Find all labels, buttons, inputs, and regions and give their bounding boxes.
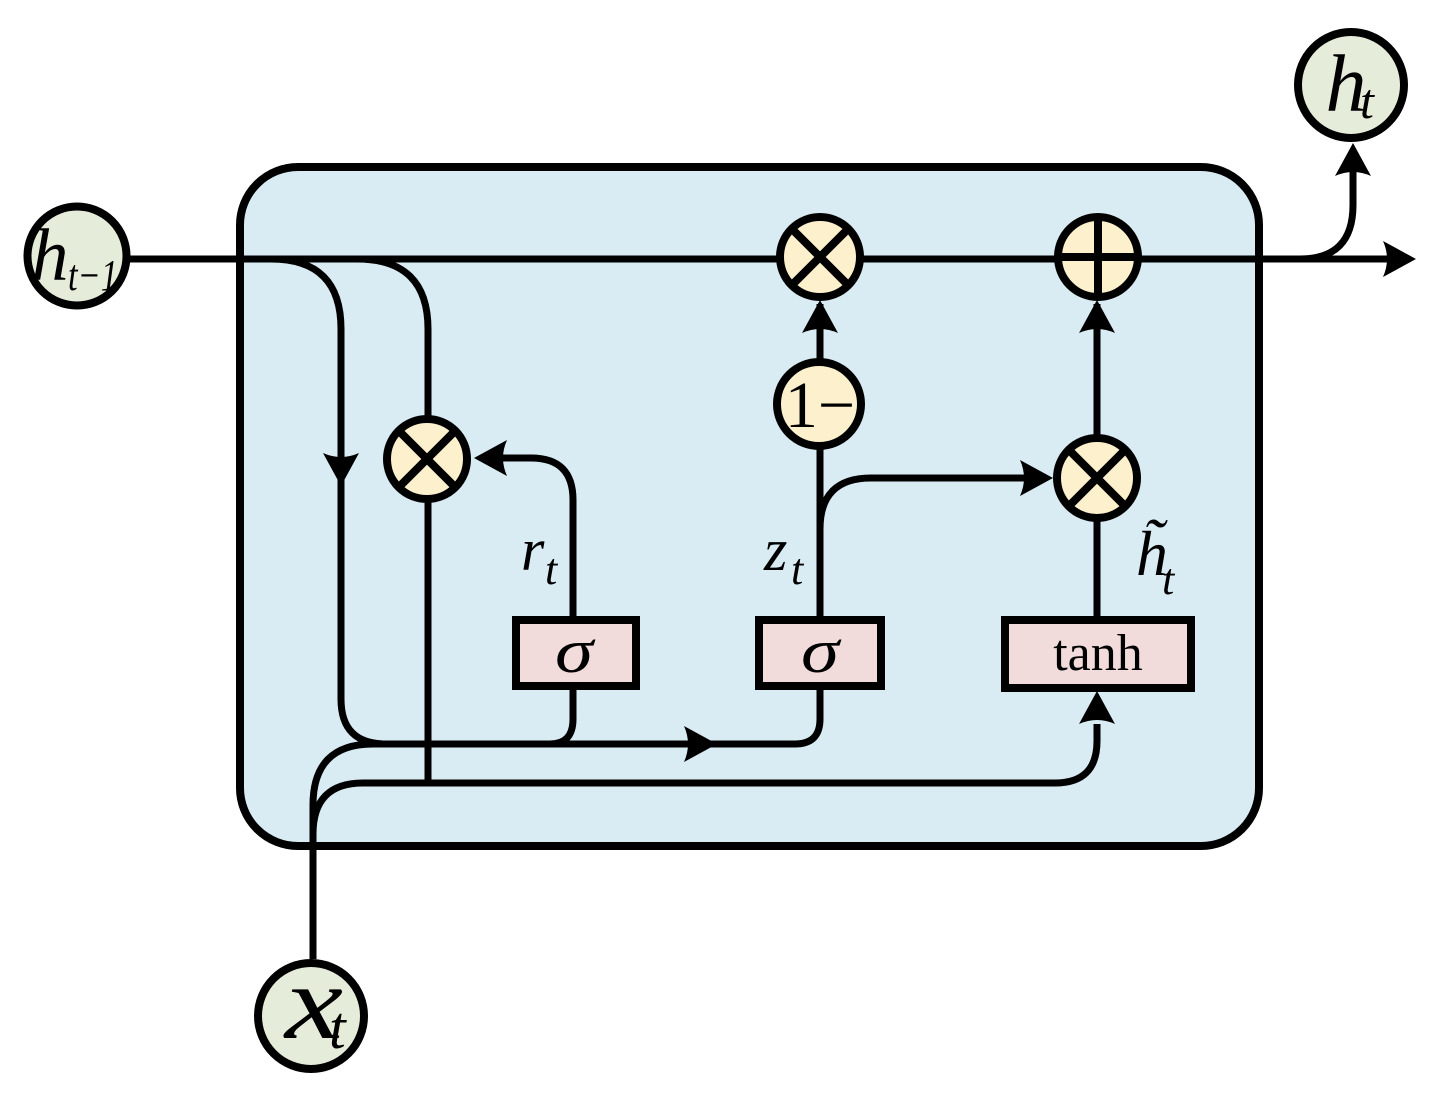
svg-text:t: t xyxy=(1162,555,1176,604)
node x_t xyxy=(258,963,364,1069)
gate: update sigma xyxy=(759,620,881,686)
wire: z branch right to candidate mult xyxy=(820,478,1040,529)
wire: x_t branch to line 2 + line 2 + tanh input xyxy=(313,724,1097,834)
node h_t xyxy=(1298,32,1404,138)
GRU cell body xyxy=(240,167,1259,846)
wire: branch B down through reset mult xyxy=(357,259,428,783)
arrowhead to h_t xyxy=(1335,143,1371,176)
node h_{t-1} xyxy=(28,207,127,306)
op: candidate multiply xyxy=(1057,438,1137,518)
op: reset multiply xyxy=(387,419,467,499)
arrowhead main line right xyxy=(1383,241,1416,277)
wire: z sigma output vertical (through 1- circle) xyxy=(817,304,824,622)
svg-text:t: t xyxy=(545,545,559,594)
op: plus xyxy=(1058,217,1138,297)
wire: main h line xyxy=(130,256,1402,263)
wire: bottom line 1 + z-gate input xyxy=(373,686,820,744)
svg-text:tanh: tanh xyxy=(1053,625,1143,682)
wire: branch A down from main line xyxy=(271,259,386,744)
arrowhead into reset mult xyxy=(474,440,507,476)
svg-text:1−: 1− xyxy=(785,369,855,442)
wire: r sigma output to reset mult xyxy=(488,458,573,622)
svg-text:t−1: t−1 xyxy=(68,251,118,300)
wire: x_t up with branch to line 1 xyxy=(313,744,373,959)
svg-text:t: t xyxy=(329,995,347,1061)
svg-text:h: h xyxy=(32,215,69,297)
wire: branch up to h_t xyxy=(1300,172,1353,259)
op: top multiply xyxy=(780,217,860,297)
gate: tanh xyxy=(1005,620,1191,688)
wire: r-gate input from line 1 xyxy=(550,686,573,744)
svg-text:t: t xyxy=(1360,73,1375,129)
wire: tanh output vertical through candidate mult to plus xyxy=(1094,304,1101,618)
arrowhead into plus xyxy=(1079,300,1115,333)
svg-text:σ: σ xyxy=(555,618,596,686)
arrowhead line 1 right xyxy=(684,726,717,762)
svg-text:z: z xyxy=(763,517,787,583)
arrowhead into candidate mult xyxy=(1020,460,1053,496)
arrowhead into top mult xyxy=(802,300,838,333)
op: 1 minus xyxy=(777,362,861,446)
arrowhead into tanh xyxy=(1079,691,1115,724)
svg-text:r: r xyxy=(521,517,545,583)
svg-text:σ: σ xyxy=(801,618,842,686)
gate: reset sigma xyxy=(516,620,636,686)
svg-text:t: t xyxy=(791,545,805,594)
arrowhead branch A down xyxy=(323,453,359,486)
